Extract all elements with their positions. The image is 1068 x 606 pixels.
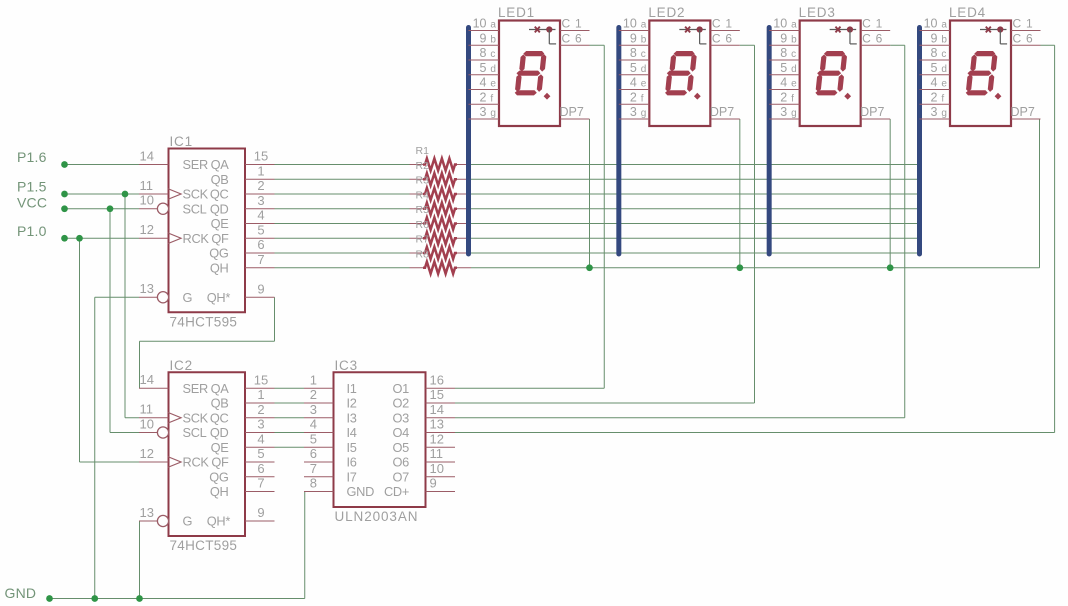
wire segment net g from IC1 to R bbox=[275, 252, 410, 254]
svg-text:9: 9 bbox=[630, 31, 637, 45]
IC2 pin 5 QF bbox=[211, 446, 274, 470]
wire segment net c from IC1 to R bbox=[275, 193, 410, 195]
svg-text:74HCT595: 74HCT595 bbox=[170, 538, 238, 553]
IC3 pin 13 O4 bbox=[393, 417, 455, 440]
svg-text:I6: I6 bbox=[347, 455, 357, 470]
IC2 pin 11 SCK bbox=[139, 402, 209, 426]
wire IC3 O1 to LED1 C6 bbox=[455, 45, 604, 388]
svg-text:9: 9 bbox=[480, 31, 487, 45]
LED2 digit 8 bbox=[664, 51, 700, 100]
svg-text:3: 3 bbox=[310, 402, 317, 417]
IC1 pin 1 QB bbox=[211, 163, 275, 187]
wire segment net e across buses bbox=[471, 223, 920, 225]
svg-text:QC: QC bbox=[210, 410, 229, 425]
LED4 pin 2 segment f bbox=[920, 90, 951, 104]
svg-text:QH: QH bbox=[210, 260, 229, 275]
svg-text:P1.0: P1.0 bbox=[17, 223, 47, 239]
svg-text:5: 5 bbox=[310, 431, 317, 446]
svg-text:4: 4 bbox=[630, 76, 637, 90]
resistor R7 bbox=[410, 234, 472, 259]
svg-text:1: 1 bbox=[876, 17, 883, 31]
LED2 pin 8 segment c bbox=[619, 46, 650, 60]
LED2 pin 3 segment g bbox=[619, 105, 650, 119]
svg-text:QD: QD bbox=[210, 201, 229, 216]
wire VCC to IC1 SCL bbox=[65, 208, 140, 210]
svg-text:12: 12 bbox=[430, 431, 444, 446]
LED4 pin 4 segment e bbox=[920, 76, 951, 90]
svg-text:O6: O6 bbox=[393, 455, 410, 470]
resistor R3 bbox=[410, 175, 472, 200]
svg-text:5: 5 bbox=[931, 61, 938, 75]
svg-text:12: 12 bbox=[140, 222, 154, 237]
svg-text:8: 8 bbox=[310, 476, 317, 491]
svg-text:15: 15 bbox=[430, 387, 444, 402]
svg-text:G: G bbox=[183, 290, 193, 305]
svg-text:f: f bbox=[641, 93, 644, 104]
wire DP drop LED1 bbox=[589, 119, 591, 268]
svg-text:8: 8 bbox=[931, 46, 938, 60]
LED3 pin 10 segment a bbox=[769, 17, 800, 31]
7-segment display LED2 bbox=[648, 5, 710, 126]
svg-text:13: 13 bbox=[140, 505, 154, 520]
wire segment net b from IC1 to R bbox=[275, 178, 410, 180]
svg-text:g: g bbox=[791, 108, 797, 119]
wire DP drop LED2 bbox=[739, 119, 741, 268]
wire IC3 O4 to LED4 C6 bbox=[455, 45, 1055, 432]
LED4 pin 6 C (common) bbox=[1011, 31, 1041, 45]
LED4 digit 8 bbox=[965, 51, 1001, 100]
wire DP drop LED4 bbox=[1039, 119, 1041, 268]
LED3 pin 2 segment f bbox=[769, 90, 800, 104]
svg-text:G: G bbox=[183, 514, 193, 529]
net P1.6 label bbox=[17, 149, 47, 165]
svg-text:LED2: LED2 bbox=[648, 5, 685, 20]
svg-text:13: 13 bbox=[140, 281, 154, 296]
svg-text:QB: QB bbox=[211, 396, 229, 411]
svg-text:9: 9 bbox=[257, 505, 264, 520]
wire segment net a from IC1 to R bbox=[275, 164, 410, 166]
svg-text:f: f bbox=[791, 93, 794, 104]
svg-text:11: 11 bbox=[140, 178, 154, 193]
svg-text:10: 10 bbox=[140, 193, 154, 208]
svg-text:e: e bbox=[941, 79, 947, 90]
IC1 pin 7 QH bbox=[210, 252, 275, 276]
svg-text:e: e bbox=[791, 79, 797, 90]
svg-text:I1: I1 bbox=[347, 381, 357, 396]
resistor R4 bbox=[410, 189, 472, 214]
junction P1.5 origin bbox=[61, 191, 68, 198]
svg-text:O2: O2 bbox=[393, 396, 410, 411]
svg-text:2: 2 bbox=[310, 387, 317, 402]
svg-text:d: d bbox=[490, 64, 496, 75]
svg-text:g: g bbox=[490, 108, 496, 119]
svg-text:8: 8 bbox=[630, 46, 637, 60]
wire DP net long rail bbox=[471, 267, 1040, 269]
svg-text:a: a bbox=[490, 20, 496, 31]
svg-text:b: b bbox=[941, 34, 947, 45]
svg-text:C: C bbox=[712, 31, 721, 45]
7-segment display LED1 bbox=[498, 5, 560, 126]
wire P1.0 down to IC2 RCK bbox=[80, 238, 140, 462]
wire segment net e from IC1 to R bbox=[275, 223, 410, 225]
svg-text:12: 12 bbox=[140, 446, 154, 461]
svg-text:1: 1 bbox=[310, 372, 317, 387]
IC1 pin 6 QG bbox=[209, 237, 274, 261]
IC2 pin 15 QA bbox=[211, 372, 275, 396]
LED1 pin 5 segment d bbox=[469, 61, 500, 75]
svg-text:P1.6: P1.6 bbox=[17, 149, 47, 165]
wire segment net f from IC1 to R bbox=[275, 237, 410, 239]
svg-text:I4: I4 bbox=[347, 425, 357, 440]
svg-text:10: 10 bbox=[473, 17, 487, 31]
IC3 pin 3 I3 bbox=[304, 402, 357, 425]
LED4 pin 10 segment a bbox=[920, 17, 951, 31]
wire IC2 QD to IC3 I4 bbox=[275, 432, 305, 434]
LED3 pin 4 segment e bbox=[769, 76, 800, 90]
svg-text:DP7: DP7 bbox=[1011, 105, 1035, 119]
svg-text:4: 4 bbox=[310, 417, 317, 432]
svg-text:QA: QA bbox=[211, 157, 230, 172]
svg-text:4: 4 bbox=[257, 208, 264, 223]
svg-text:5: 5 bbox=[257, 446, 264, 461]
IC1 pin 2 QC bbox=[210, 178, 275, 202]
junction GND IC2 branch bbox=[136, 595, 143, 602]
LED1 bus bar bbox=[466, 28, 471, 255]
wire P1.6 to IC1 SER bbox=[65, 164, 140, 166]
svg-text:3: 3 bbox=[630, 105, 637, 119]
svg-text:9: 9 bbox=[780, 31, 787, 45]
svg-text:IC1: IC1 bbox=[170, 134, 193, 149]
junction P1.5 branch bbox=[122, 191, 129, 198]
LED1 pin 2 segment f bbox=[469, 90, 500, 104]
svg-text:C: C bbox=[862, 17, 871, 31]
IC2 pin 7 QH bbox=[210, 476, 275, 500]
svg-text:8: 8 bbox=[780, 46, 787, 60]
wire IC2 QA to IC3 I1 bbox=[275, 387, 305, 389]
LED2 pin 2 segment f bbox=[619, 90, 650, 104]
svg-text:9: 9 bbox=[430, 476, 437, 491]
LED2 pin 9 segment b bbox=[619, 31, 650, 45]
net GND label bbox=[5, 585, 37, 601]
IC1 pin 10 SCL bbox=[139, 193, 207, 217]
LED1 pin 10 segment a bbox=[469, 17, 500, 31]
IC3 pin 1 I1 bbox=[304, 372, 357, 395]
wire IC2 QC to IC3 I3 bbox=[275, 417, 305, 419]
LED4 pin 7 DP bbox=[1011, 105, 1041, 119]
svg-text:10: 10 bbox=[924, 17, 938, 31]
LED3 pin 6 C (common) bbox=[861, 31, 891, 45]
wire segment net a across buses bbox=[471, 164, 920, 166]
svg-text:10: 10 bbox=[773, 17, 787, 31]
svg-text:4: 4 bbox=[780, 76, 787, 90]
svg-text:3: 3 bbox=[257, 193, 264, 208]
svg-text:2: 2 bbox=[257, 178, 264, 193]
svg-text:O1: O1 bbox=[393, 381, 410, 396]
LED3 pin 7 DP bbox=[860, 105, 890, 119]
wire segment net g across buses bbox=[471, 252, 920, 254]
LED1 pin 1 C (common) bbox=[560, 17, 590, 31]
svg-text:d: d bbox=[641, 64, 647, 75]
IC1 pin 3 QD bbox=[210, 193, 275, 217]
svg-text:4: 4 bbox=[257, 431, 264, 446]
svg-text:SCL: SCL bbox=[183, 201, 207, 216]
IC1 pin 4 QE bbox=[211, 208, 275, 232]
svg-text:IC3: IC3 bbox=[335, 358, 358, 373]
svg-text:SER: SER bbox=[183, 381, 208, 396]
junction P1.0 origin bbox=[61, 235, 68, 242]
IC2 pin 10 SCL bbox=[139, 416, 207, 440]
net P1.0 label bbox=[17, 223, 47, 239]
LED4 pin 8 segment c bbox=[920, 46, 951, 60]
svg-text:11: 11 bbox=[430, 446, 444, 461]
svg-text:I3: I3 bbox=[347, 410, 357, 425]
svg-text:GND: GND bbox=[5, 585, 37, 601]
7-segment display LED4 bbox=[949, 5, 1011, 126]
svg-text:a: a bbox=[641, 20, 647, 31]
LED3 common-anode symbol bbox=[830, 26, 857, 44]
wire segment net f across buses bbox=[471, 237, 920, 239]
LED3 pin 9 segment b bbox=[769, 31, 800, 45]
junction GND IC1 branch bbox=[91, 595, 98, 602]
svg-text:SER: SER bbox=[183, 157, 208, 172]
LED3 pin 1 C (common) bbox=[861, 17, 891, 31]
svg-text:6: 6 bbox=[876, 31, 883, 45]
IC2 pin 12 RCK bbox=[139, 446, 209, 470]
IC3 pin 2 I2 bbox=[304, 387, 357, 410]
wire segment net d from IC1 to R bbox=[275, 208, 410, 210]
LED2 pin 6 C (common) bbox=[710, 31, 740, 45]
wire GND up to IC2 G bbox=[139, 521, 141, 599]
LED2 pin 5 segment d bbox=[619, 61, 650, 75]
LED2 pin 7 DP bbox=[710, 105, 740, 119]
IC1 pin 12 RCK bbox=[139, 222, 209, 246]
svg-text:13: 13 bbox=[430, 417, 444, 432]
7-segment display LED3 bbox=[799, 5, 861, 126]
IC2 pin 4 QE bbox=[211, 431, 275, 455]
svg-text:QF: QF bbox=[211, 231, 229, 246]
svg-text:3: 3 bbox=[931, 105, 938, 119]
junction P1.0 branch bbox=[76, 235, 83, 242]
svg-text:c: c bbox=[490, 49, 495, 60]
junction DP LED1 bbox=[586, 264, 593, 271]
wire P1.0 to IC1 RCK bbox=[65, 237, 140, 239]
LED2 pin 1 C (common) bbox=[710, 17, 740, 31]
LED3 pin 3 segment g bbox=[769, 105, 800, 119]
svg-text:RCK: RCK bbox=[183, 455, 210, 470]
svg-text:1: 1 bbox=[257, 387, 264, 402]
IC3 pin 7 I7 bbox=[304, 461, 357, 484]
IC2 pin 9 QH* bbox=[207, 505, 275, 529]
svg-text:1: 1 bbox=[575, 17, 582, 31]
IC3 pin 6 I6 bbox=[304, 446, 357, 469]
svg-text:b: b bbox=[641, 34, 647, 45]
svg-text:QC: QC bbox=[210, 187, 229, 202]
IC1 pin 13 G bbox=[139, 281, 192, 305]
svg-text:LED4: LED4 bbox=[949, 5, 986, 20]
LED3 digit 8 bbox=[815, 51, 851, 100]
LED2 pin 4 segment e bbox=[619, 76, 650, 90]
svg-text:DP7: DP7 bbox=[860, 105, 884, 119]
LED2 pin 10 segment a bbox=[619, 17, 650, 31]
svg-text:6: 6 bbox=[725, 31, 732, 45]
svg-text:g: g bbox=[641, 108, 647, 119]
IC3 pin 11 O6 bbox=[393, 446, 455, 469]
svg-text:11: 11 bbox=[140, 402, 154, 417]
wire GND rail bbox=[50, 598, 305, 600]
resistor R1 bbox=[410, 145, 472, 170]
svg-text:RCK: RCK bbox=[183, 231, 210, 246]
svg-text:1: 1 bbox=[725, 17, 732, 31]
svg-text:5: 5 bbox=[257, 222, 264, 237]
svg-text:14: 14 bbox=[140, 148, 154, 163]
svg-text:LED1: LED1 bbox=[498, 5, 535, 20]
wire GND up to IC3 GND bbox=[304, 492, 306, 599]
svg-text:O5: O5 bbox=[393, 440, 410, 455]
wire VCC down to IC2 SCL bbox=[110, 209, 139, 433]
svg-text:8: 8 bbox=[480, 46, 487, 60]
IC3 pin 5 I5 bbox=[304, 431, 357, 454]
svg-text:QF: QF bbox=[211, 455, 229, 470]
LED3 bus bar bbox=[767, 28, 772, 255]
LED2 bus bar bbox=[616, 28, 621, 255]
svg-text:QG: QG bbox=[209, 469, 228, 484]
svg-text:O7: O7 bbox=[393, 469, 410, 484]
IC IC1 74HCT595 bbox=[169, 134, 246, 329]
svg-text:C: C bbox=[1013, 17, 1022, 31]
net VCC label bbox=[17, 194, 47, 210]
LED1 common-anode symbol bbox=[529, 26, 556, 44]
svg-text:3: 3 bbox=[780, 105, 787, 119]
svg-text:C: C bbox=[862, 31, 871, 45]
LED4 bus bar bbox=[917, 28, 922, 255]
LED1 pin 9 segment b bbox=[469, 31, 500, 45]
wire DP drop LED3 bbox=[889, 119, 891, 268]
svg-text:QA: QA bbox=[211, 381, 230, 396]
svg-text:c: c bbox=[641, 49, 646, 60]
svg-text:SCK: SCK bbox=[183, 187, 209, 202]
svg-text:14: 14 bbox=[140, 372, 154, 387]
svg-text:5: 5 bbox=[630, 61, 637, 75]
svg-text:1: 1 bbox=[1026, 17, 1033, 31]
svg-text:VCC: VCC bbox=[17, 194, 47, 210]
svg-text:QE: QE bbox=[211, 440, 229, 455]
wire P1.5 to IC1 SCK bbox=[65, 193, 140, 195]
svg-text:d: d bbox=[791, 64, 797, 75]
svg-text:DP7: DP7 bbox=[560, 105, 584, 119]
svg-text:10: 10 bbox=[623, 17, 637, 31]
wire DP net from IC1 QH to R8 bbox=[275, 267, 410, 269]
svg-text:4: 4 bbox=[931, 76, 938, 90]
svg-text:10: 10 bbox=[430, 461, 444, 476]
IC3 pin 12 O5 bbox=[393, 431, 455, 454]
LED4 pin 9 segment b bbox=[920, 31, 951, 45]
svg-text:6: 6 bbox=[257, 461, 264, 476]
svg-text:4: 4 bbox=[480, 76, 487, 90]
svg-text:C: C bbox=[712, 17, 721, 31]
wire IC3 O2 to LED2 C6 bbox=[455, 45, 755, 403]
LED1 pin 3 segment g bbox=[469, 105, 500, 119]
svg-text:6: 6 bbox=[310, 446, 317, 461]
svg-text:5: 5 bbox=[480, 61, 487, 75]
LED3 pin 8 segment c bbox=[769, 46, 800, 60]
IC3 pin 8 GND bbox=[304, 476, 374, 499]
LED2 common-anode symbol bbox=[679, 26, 706, 44]
svg-text:10: 10 bbox=[140, 416, 154, 431]
svg-text:3: 3 bbox=[257, 417, 264, 432]
svg-text:ULN2003AN: ULN2003AN bbox=[335, 509, 419, 524]
svg-text:7: 7 bbox=[257, 476, 264, 491]
IC2 pin 6 QG bbox=[209, 461, 274, 485]
junction VCC origin bbox=[61, 205, 68, 212]
LED4 pin 5 segment d bbox=[920, 61, 951, 75]
LED4 common-anode symbol bbox=[980, 26, 1007, 44]
svg-text:GND: GND bbox=[347, 484, 375, 499]
svg-text:C: C bbox=[1013, 31, 1022, 45]
junction VCC branch bbox=[107, 205, 114, 212]
junction DP LED3 bbox=[887, 264, 894, 271]
IC IC3 ULN2003AN bbox=[334, 358, 426, 524]
IC1 pin 11 SCK bbox=[139, 178, 209, 202]
LED1 digit 8 bbox=[514, 51, 550, 100]
wire segment net b across buses bbox=[471, 178, 920, 180]
LED3 pin 5 segment d bbox=[769, 61, 800, 75]
LED1 pin 8 segment c bbox=[469, 46, 500, 60]
IC2 pin 14 SER bbox=[139, 372, 208, 396]
svg-text:7: 7 bbox=[310, 461, 317, 476]
LED4 pin 1 C (common) bbox=[1011, 17, 1041, 31]
svg-text:P1.5: P1.5 bbox=[17, 179, 47, 195]
wire IC2 QB to IC3 I2 bbox=[275, 402, 305, 404]
svg-text:2: 2 bbox=[480, 90, 487, 104]
wire segment net c across buses bbox=[471, 193, 920, 195]
net P1.5 label bbox=[17, 179, 47, 195]
svg-text:C: C bbox=[562, 17, 571, 31]
svg-text:3: 3 bbox=[480, 105, 487, 119]
resistor R2 bbox=[410, 160, 472, 185]
resistor R6 bbox=[410, 219, 472, 244]
junction GND origin bbox=[46, 595, 53, 602]
svg-text:1: 1 bbox=[257, 163, 264, 178]
IC3 pin 16 O1 bbox=[393, 372, 455, 395]
LED1 pin 6 C (common) bbox=[560, 31, 590, 45]
IC3 pin 9 CD+ bbox=[384, 476, 455, 499]
svg-text:I2: I2 bbox=[347, 396, 357, 411]
junction DP LED2 bbox=[736, 264, 743, 271]
svg-text:16: 16 bbox=[430, 372, 444, 387]
svg-text:f: f bbox=[941, 93, 944, 104]
svg-text:9: 9 bbox=[931, 31, 938, 45]
svg-text:b: b bbox=[791, 34, 797, 45]
svg-text:DP7: DP7 bbox=[710, 105, 734, 119]
svg-text:O3: O3 bbox=[393, 410, 410, 425]
svg-text:2: 2 bbox=[780, 90, 787, 104]
svg-text:c: c bbox=[791, 49, 796, 60]
svg-text:QE: QE bbox=[211, 216, 229, 231]
IC2 pin 1 QB bbox=[211, 387, 275, 411]
svg-text:a: a bbox=[791, 20, 797, 31]
IC3 pin 15 O2 bbox=[393, 387, 455, 410]
svg-text:b: b bbox=[490, 34, 496, 45]
LED1 pin 7 DP bbox=[560, 105, 590, 119]
wire IC2 QE to IC3 I5 bbox=[275, 446, 305, 448]
svg-text:I7: I7 bbox=[347, 469, 357, 484]
svg-text:6: 6 bbox=[257, 237, 264, 252]
junction P1.6 origin bbox=[61, 161, 68, 168]
IC1 pin 9 QH* bbox=[207, 281, 275, 305]
svg-text:15: 15 bbox=[254, 372, 268, 387]
svg-text:2: 2 bbox=[630, 90, 637, 104]
svg-text:QD: QD bbox=[210, 425, 229, 440]
